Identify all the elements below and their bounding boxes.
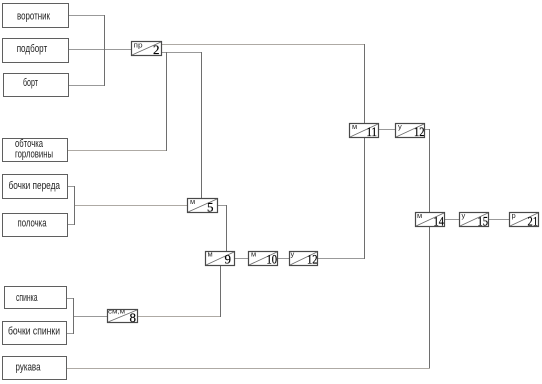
svg-text:бочки спинки: бочки спинки [8,326,60,338]
svg-text:пр: пр [134,41,143,50]
svg-text:полочка: полочка [18,218,47,230]
svg-text:воротник: воротник [17,11,50,23]
svg-text:спинка: спинка [16,292,38,304]
svg-text:у: у [398,122,402,131]
svg-text:12: 12 [414,124,425,139]
svg-text:5: 5 [207,200,214,215]
svg-text:м: м [417,211,422,220]
svg-text:2: 2 [153,42,160,57]
svg-text:у: у [291,250,295,259]
svg-text:12: 12 [307,252,318,267]
svg-text:15: 15 [478,214,489,229]
svg-text:8: 8 [130,310,137,325]
svg-text:см,м: см,м [108,309,126,316]
svg-text:у: у [462,211,466,220]
svg-text:м: м [208,250,213,259]
svg-text:14: 14 [434,214,445,229]
svg-text:м: м [190,197,195,206]
svg-text:рукава: рукава [16,362,42,374]
svg-text:21: 21 [528,214,539,229]
svg-text:11: 11 [367,124,378,139]
svg-text:м: м [251,250,256,259]
svg-text:10: 10 [267,252,278,267]
svg-text:м: м [352,122,357,131]
svg-text:9: 9 [225,252,232,267]
svg-text:подборт: подборт [17,43,48,55]
svg-text:бочки переда: бочки переда [9,180,61,192]
svg-text:борт: борт [23,77,38,89]
svg-text:горловины: горловины [15,149,53,161]
svg-text:р: р [512,211,516,220]
